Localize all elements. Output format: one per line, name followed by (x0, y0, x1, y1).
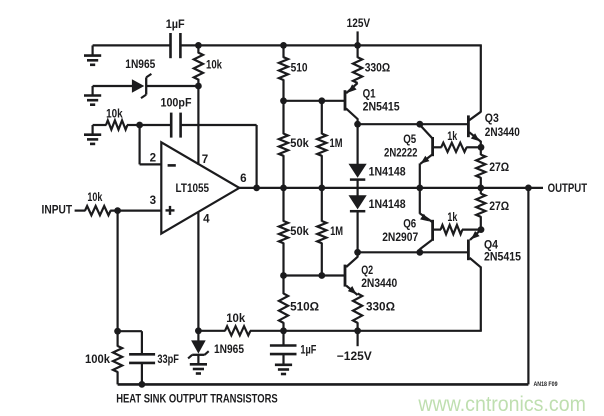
svg-text:Q3: Q3 (485, 112, 499, 125)
junction (416, 121, 423, 128)
resistor 510Ω (lower) (279, 276, 319, 331)
junction V+ node (195, 83, 202, 90)
wire node to C 100pF (140, 124, 171, 126)
svg-text:510Ω: 510Ω (290, 301, 319, 314)
svg-text:7: 7 (202, 153, 208, 166)
wire Q1 collector to Q3 base (358, 123, 469, 125)
resistor 10k (bottom) (198, 312, 283, 335)
pin 4 label (203, 212, 210, 225)
svg-text:510: 510 (291, 62, 308, 75)
svg-text:1N4148: 1N4148 (369, 166, 406, 179)
wire top rail (181, 44, 482, 46)
svg-text:2: 2 (150, 152, 156, 165)
junction output / Q5-Q6 (416, 185, 423, 192)
svg-text:1k: 1k (447, 130, 457, 143)
svg-text:1N4148: 1N4148 (369, 198, 406, 211)
junction (318, 272, 325, 279)
wire 100pF to output node (181, 125, 257, 188)
resistor 1k (upper) (433, 130, 481, 152)
svg-text:3: 3 (150, 194, 157, 207)
svg-text:OUTPUT: OUTPUT (548, 182, 588, 195)
resistor 100k (85, 331, 122, 384)
junction (280, 97, 287, 104)
svg-text:Q2: Q2 (361, 264, 373, 277)
junction pin 4 node (195, 327, 202, 334)
transistor Q4 2N5415 (468, 230, 521, 331)
svg-text:10k: 10k (226, 312, 246, 325)
input terminal INPUT (42, 204, 86, 217)
wire node to pin 2 (140, 125, 162, 164)
resistor 1k (lower) (433, 211, 481, 234)
figure label AN18 F09 (534, 381, 558, 388)
junction (318, 97, 325, 104)
resistor 10k (input) (85, 191, 111, 215)
resistor 330Ω (upper) (353, 45, 390, 83)
svg-text:33pF: 33pF (157, 353, 179, 366)
op-amp minus sign (168, 164, 176, 167)
junction -125V (354, 327, 361, 334)
ground (84, 86, 101, 105)
wire node to 33pF (118, 331, 142, 354)
junction input RC node (114, 328, 121, 335)
svg-text:2N2907: 2N2907 (382, 231, 418, 244)
transistor Q2 2N3440 (345, 252, 397, 295)
op-amp plus sign (166, 206, 175, 215)
junction top rail / 125V (354, 42, 361, 49)
svg-text:330Ω: 330Ω (365, 62, 391, 75)
svg-text:1M: 1M (330, 225, 343, 238)
svg-text:2N3440: 2N3440 (485, 126, 520, 139)
svg-text:4: 4 (203, 212, 210, 225)
svg-text:INPUT: INPUT (42, 204, 73, 217)
pin 7 label (202, 153, 208, 166)
power +125V (347, 17, 371, 46)
svg-text:1µF: 1µF (166, 18, 185, 31)
svg-text:10k: 10k (106, 108, 123, 121)
capacitor C 100pF (161, 97, 192, 138)
svg-text:50k: 50k (290, 137, 309, 150)
watermark www.cntronics.com (417, 392, 585, 416)
resistor 10k (inverting input) (93, 108, 140, 130)
resistor 330Ω (lower) (353, 294, 395, 331)
svg-text:2N3440: 2N3440 (361, 277, 397, 290)
svg-text:2N5415: 2N5415 (363, 100, 400, 113)
ground (275, 365, 292, 374)
wire input node down (116, 211, 118, 332)
svg-text:Q6: Q6 (403, 217, 416, 230)
resistor 1M (lower) (317, 188, 343, 276)
svg-text:1M: 1M (330, 137, 343, 150)
capacitor C 33pF (129, 353, 179, 384)
svg-text:10k: 10k (87, 191, 102, 204)
svg-text:100pF: 100pF (161, 97, 192, 110)
pin 2 label (150, 152, 156, 165)
svg-text:Q1: Q1 (363, 87, 376, 100)
wire Q2 collector to Q4 base (358, 251, 469, 253)
svg-text:27Ω: 27Ω (489, 161, 509, 174)
output terminal OUTPUT (548, 182, 588, 195)
resistor 1M (upper) (317, 101, 342, 188)
junction (318, 185, 325, 192)
junction (280, 272, 287, 279)
svg-text:2N2222: 2N2222 (384, 146, 418, 159)
resistor 10k (V+ dropper) (194, 45, 223, 86)
svg-text:1N965: 1N965 (214, 343, 244, 356)
op-amp U1 LT1055 (161, 142, 239, 233)
transistor Q1 2N5415 (345, 83, 400, 124)
capacitor C 1uF (top) (166, 18, 185, 58)
junction pin 6 node (253, 185, 260, 192)
wire pin7 supply (197, 86, 199, 165)
svg-text:−125V: −125V (337, 350, 372, 363)
svg-text:1µF: 1µF (300, 343, 316, 356)
svg-text:6: 6 (240, 172, 247, 185)
junction output / feedback (525, 185, 532, 192)
ground (84, 125, 101, 144)
svg-text:27Ω: 27Ω (489, 200, 509, 213)
wire zener to V+ node (146, 85, 198, 87)
ground (84, 45, 101, 64)
svg-text:1k: 1k (447, 211, 457, 224)
junction -V node / C 1uF (280, 327, 287, 334)
svg-text:330Ω: 330Ω (366, 301, 395, 314)
caption HEAT SINK OUTPUT TRANSISTORS (116, 392, 278, 405)
junction bottom rail / 33pF (139, 381, 146, 388)
transistor Q5 2N2222 (384, 125, 433, 164)
wire bottom feedback rail (118, 188, 529, 385)
svg-text:10k: 10k (206, 58, 222, 71)
resistor 510 (upper) (279, 45, 308, 100)
wire ground to zener D1 (93, 85, 133, 87)
resistor 27Ω (upper) (476, 147, 509, 188)
wire top rail left segment (93, 44, 171, 46)
wire diode chain top (357, 124, 359, 164)
wire output line (239, 187, 543, 189)
wire +125V rail to Q3 collector (480, 45, 482, 112)
junction input node (114, 207, 121, 214)
diode 1N4148 (lower) (349, 195, 407, 211)
pin 3 label (150, 194, 157, 207)
wire Q1 base line (284, 100, 346, 102)
junction top rail / 510 (280, 42, 287, 49)
wire Q5 emitter to Q6 emitter (419, 163, 421, 213)
wire pin 4 (197, 212, 199, 331)
junction Q4 emitter / 1k (478, 226, 485, 233)
junction (280, 185, 287, 192)
svg-text:125V: 125V (347, 17, 371, 30)
junction Q2 collector / diodes (354, 249, 361, 256)
junction Q1 collector (354, 121, 361, 128)
junction feedback node (136, 122, 143, 129)
zener diode 1N965 (top) (125, 58, 155, 98)
junction node V+ rail / C1 (195, 42, 202, 49)
svg-text:100k: 100k (85, 353, 111, 366)
diode 1N4148 (upper) (349, 164, 407, 180)
capacitor C 1uF (bottom) (270, 331, 317, 365)
power -125V (337, 331, 372, 363)
svg-text:AN18 F09: AN18 F09 (534, 381, 558, 388)
junction Q3 emitter / 1k (478, 144, 485, 151)
wire negative rail (284, 330, 482, 332)
transistor Q6 2N2907 (382, 213, 432, 252)
wire Q2 base line (284, 274, 346, 276)
resistor 50k (upper) (279, 101, 309, 188)
svg-text:Q5: Q5 (403, 133, 416, 146)
svg-text:LT1055: LT1055 (176, 182, 210, 195)
transistor Q3 2N3440 (468, 112, 519, 148)
wire input node to pin 3 (110, 210, 161, 212)
zener diode 1N965 (bottom) (188, 331, 244, 359)
svg-text:HEAT SINK OUTPUT TRANSISTORS: HEAT SINK OUTPUT TRANSISTORS (116, 392, 278, 405)
svg-text:1N965: 1N965 (125, 58, 155, 71)
resistor 27Ω (lower) (476, 188, 509, 230)
svg-text:50k: 50k (290, 225, 309, 238)
svg-text:2N5415: 2N5415 (484, 251, 521, 264)
junction (416, 249, 423, 256)
wire between diodes (357, 180, 359, 196)
junction output / 27Ω (477, 185, 484, 192)
resistor 50k (lower) (279, 188, 309, 276)
wire diode chain bottom (357, 211, 359, 252)
svg-text:www.cntronics.com: www.cntronics.com (417, 392, 585, 416)
pin 6 label (240, 172, 247, 185)
ground (190, 355, 207, 374)
